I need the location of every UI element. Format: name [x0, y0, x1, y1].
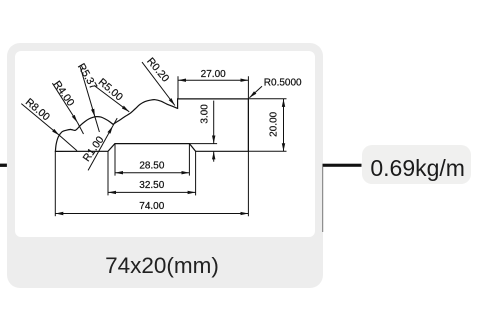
dim 20.00 line [283, 99, 285, 151]
dim 20.00 ext bottom [248, 150, 286, 152]
dim 74.00 ext left [54, 151, 56, 216]
svg-text:20.00: 20.00 [268, 111, 279, 136]
dim 27.00 extension right + profile right edge + 74.00 ext [247, 76, 249, 216]
svg-text:27.00: 27.00 [201, 69, 226, 80]
svg-text:32.50: 32.50 [139, 180, 164, 191]
dim 3.00 lower shaft [213, 151, 215, 161]
svg-text:R8.00: R8.00 [23, 96, 52, 123]
leader R0.20 [142, 62, 175, 105]
svg-text:R5.37: R5.37 [75, 61, 99, 91]
svg-text:R0.5000: R0.5000 [264, 78, 302, 89]
dim 74.00 line [55, 213, 248, 215]
caption 74x20(mm) [12, 253, 312, 279]
dim 20.00 ext top [248, 98, 286, 100]
wire faint vertical stub [322, 167, 324, 233]
dim 28.50 line [115, 172, 189, 174]
svg-text:3.00: 3.00 [199, 104, 210, 124]
leader R5.00 [94, 85, 129, 111]
profile card [7, 43, 323, 288]
drawing white area [15, 51, 315, 237]
dim 27.00 line [178, 79, 248, 81]
dim 27.00 extension left [177, 76, 179, 99]
leader R4.00 [52, 83, 77, 122]
dim 3.00 upper shaft [213, 101, 215, 144]
wire right connector to kg box [323, 164, 362, 167]
leader R5.37 [80, 67, 95, 117]
dim 32.50 line [108, 191, 196, 193]
dim 32.50 ext right [195, 151, 197, 195]
label box 0.69kg/m [362, 145, 471, 185]
dim 32.50 ext left [107, 151, 109, 195]
dim 28.50 ext left [114, 144, 116, 176]
dim 3.00 ceiling extension [189, 143, 217, 145]
svg-text:74.00: 74.00 [139, 201, 164, 212]
leader R0.5000 [249, 86, 262, 98]
svg-text:R4.00: R4.00 [51, 79, 77, 109]
wire left connector [0, 164, 7, 167]
leader R8.00 [21, 104, 59, 136]
dim 28.50 ext right [188, 144, 190, 176]
profile outline [55, 99, 248, 151]
leader R1.00 [88, 126, 113, 170]
svg-text:28.50: 28.50 [139, 161, 164, 172]
